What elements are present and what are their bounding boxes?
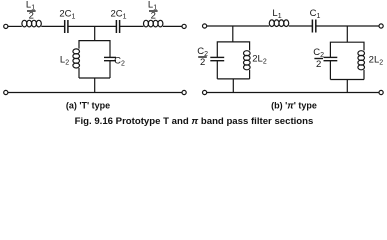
wire (shunt B left leg bottom) [329,61,331,80]
shunt B loop top bar [330,42,364,57]
label C2/2 (shunt A) [197,46,208,68]
svg-text:2: 2 [151,11,156,22]
node (T mid junction) wire down [94,26,96,40]
svg-text:L2: L2 [60,55,69,67]
shunt loop top bar [79,41,110,57]
capacitor 2C1 (left) [65,20,68,33]
wire [316,25,379,27]
svg-text:2L2: 2L2 [252,54,267,66]
svg-text:2C1: 2C1 [110,8,126,20]
wire [289,25,313,27]
svg-text:2L2: 2L2 [369,55,384,67]
inductor L1 (pi series) [269,20,288,27]
capacitor 2C1 (right) [116,20,119,33]
capacitor C2/2 (shunt B left leg) [324,57,338,60]
svg-text:L1: L1 [272,8,281,20]
node (pi right junction) wire down [346,26,348,42]
label L1/2 (right) [148,0,158,22]
terminal (pi input, top) [203,24,207,28]
wire [8,25,22,27]
inductor L2 (shunt left leg) [73,49,80,68]
svg-text:(a) 'T' type: (a) 'T' type [66,101,110,111]
shunt A loop bottom bar [217,78,249,80]
wire (shunt A right leg bottom) [249,70,251,79]
capacitor C2/2 (shunt A left leg) [210,57,224,60]
inductor 2L2 (shunt A right leg) [244,51,251,70]
svg-text:2: 2 [29,11,34,22]
wire (shunt A to bottom rail) [232,79,234,93]
capacitor C1 (pi series) [312,20,315,33]
bottom rail (pi) [207,92,379,94]
label C2/2 (shunt B) [313,47,324,70]
svg-text:2: 2 [200,57,205,68]
inductor L1/2 (left) [22,20,41,27]
wire [207,25,269,27]
bottom rail (T) [8,92,182,94]
wire (shunt A left leg bottom) [216,61,218,79]
wire [120,25,144,27]
svg-text:C2: C2 [313,47,324,59]
capacitor C2 (shunt right leg) [104,57,116,60]
label L1/2 (left) [26,0,36,22]
shunt B loop bottom bar [330,79,364,81]
wire [68,25,116,27]
svg-text:2: 2 [316,59,321,70]
svg-text:Fig. 9.16 Prototype T and π ba: Fig. 9.16 Prototype T and π band pass fi… [75,116,314,127]
wire (shunt B to bottom rail) [346,80,348,93]
inductor 2L2 (shunt B right leg) [358,51,365,70]
svg-text:C2: C2 [114,56,125,68]
svg-text:(b) 'π' type: (b) 'π' type [271,101,317,111]
terminal (T output, bottom) [182,90,186,94]
wire [41,25,64,27]
wire (shunt B right leg bottom) [363,70,365,80]
terminal (pi output, top) [379,24,383,28]
node (pi left junction) wire down [232,26,234,42]
wire (shunt to bottom rail) [94,78,96,93]
terminal (T output, top) [182,24,186,28]
wire (right leg bottom) [109,61,111,78]
wire [163,25,182,27]
shunt A loop top bar [217,42,249,57]
terminal (pi output, bottom) [379,90,383,94]
svg-text:C1: C1 [310,8,321,20]
svg-text:C2: C2 [197,46,208,58]
terminal (T input, bottom) [4,90,8,94]
terminal (T input, top) [4,24,8,28]
inductor L1/2 (right) [144,20,163,27]
terminal (pi input, bottom) [203,90,207,94]
wire (left leg bottom) [78,68,80,78]
shunt loop bottom bar [79,77,110,79]
svg-text:2C1: 2C1 [59,8,75,20]
